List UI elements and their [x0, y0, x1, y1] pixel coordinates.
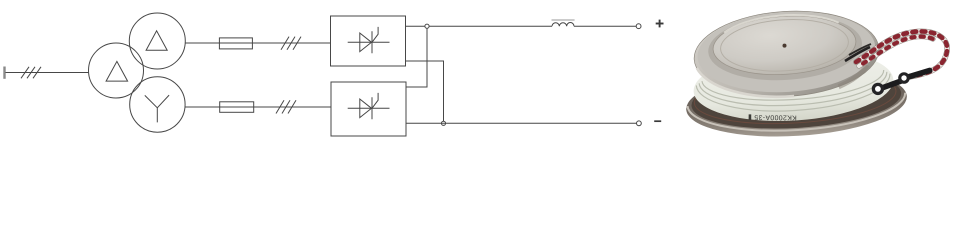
label plus	[656, 20, 664, 28]
wire upper-bridge to negative bus	[406, 61, 444, 121]
transformer primary winding circle	[89, 43, 144, 98]
wye symbol	[145, 95, 169, 122]
junction node positive	[425, 24, 429, 28]
flange rim highlight	[688, 93, 907, 137]
wire positive bus	[406, 25, 553, 27]
wire supply input	[6, 72, 89, 74]
wire negative bus	[406, 122, 637, 124]
rectifier bridge box upper	[331, 16, 406, 66]
lid step ring	[706, 10, 864, 84]
3-phase slash marks lower	[276, 100, 284, 113]
ring terminal lug 1	[872, 83, 884, 95]
center dot	[782, 43, 786, 47]
wire lower secondary	[185, 106, 331, 108]
flange inner dark band	[690, 65, 903, 135]
terminal positive	[636, 24, 641, 29]
inductor core bar	[552, 19, 575, 21]
transformer secondary winding circle (delta)	[129, 13, 185, 69]
delta symbol secondary	[146, 31, 167, 51]
rectifier bridge box lower	[331, 82, 406, 136]
svg-text:KK2000A-35 ▮: KK2000A-35 ▮	[748, 113, 797, 120]
supply terminal bar	[3, 67, 5, 79]
ring terminal sleeve 1	[877, 77, 907, 93]
face groove ring	[719, 16, 850, 75]
lid rim highlight bottom-left	[697, 62, 794, 102]
lid skirt	[692, 6, 882, 102]
gate lead stub 2 (black)	[849, 44, 871, 55]
terminal negative	[637, 121, 642, 126]
thyristor symbol upper	[348, 27, 390, 53]
delta symbol primary	[106, 61, 128, 81]
thyristor symbol lower	[348, 93, 390, 119]
flange gasket line	[693, 65, 898, 129]
lid right-side shadow	[837, 65, 868, 87]
ceramic insulator body	[692, 44, 896, 126]
ring terminal lug 2	[898, 72, 910, 84]
twisted gate/cathode lead pair (main loop)	[856, 31, 947, 78]
inductor L1 (smoothing choke)	[552, 23, 574, 27]
label minus	[654, 120, 661, 122]
top pole face	[711, 12, 857, 79]
3-phase slash marks upper	[281, 37, 289, 50]
fuse F2	[220, 102, 254, 113]
fuse F1	[219, 38, 252, 49]
3-phase slash marks input	[21, 67, 29, 79]
wire lower-bridge to positive junction	[406, 28, 427, 87]
junction node negative	[441, 121, 445, 125]
ceramic ridge 1	[696, 74, 892, 117]
twisted gate/cathode lead pair (second strand)	[859, 37, 933, 66]
ring terminal sleeve 2	[903, 67, 933, 81]
ceramic ridge 3	[702, 70, 885, 105]
device bottom flange	[684, 63, 909, 142]
ceramic ridge 2	[699, 72, 888, 111]
gate lead stub (black)	[845, 47, 870, 61]
face top highlight arc	[723, 12, 839, 33]
wire upper secondary	[185, 42, 331, 44]
transformer secondary winding circle (wye)	[130, 77, 185, 132]
